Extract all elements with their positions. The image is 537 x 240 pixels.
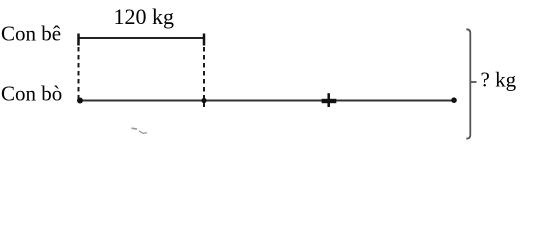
svg-text:? kg: ? kg <box>481 68 517 92</box>
svg-text:Con bò: Con bò <box>1 82 62 106</box>
svg-text:120 kg: 120 kg <box>114 4 175 29</box>
svg-text:Con bê: Con bê <box>1 22 61 46</box>
